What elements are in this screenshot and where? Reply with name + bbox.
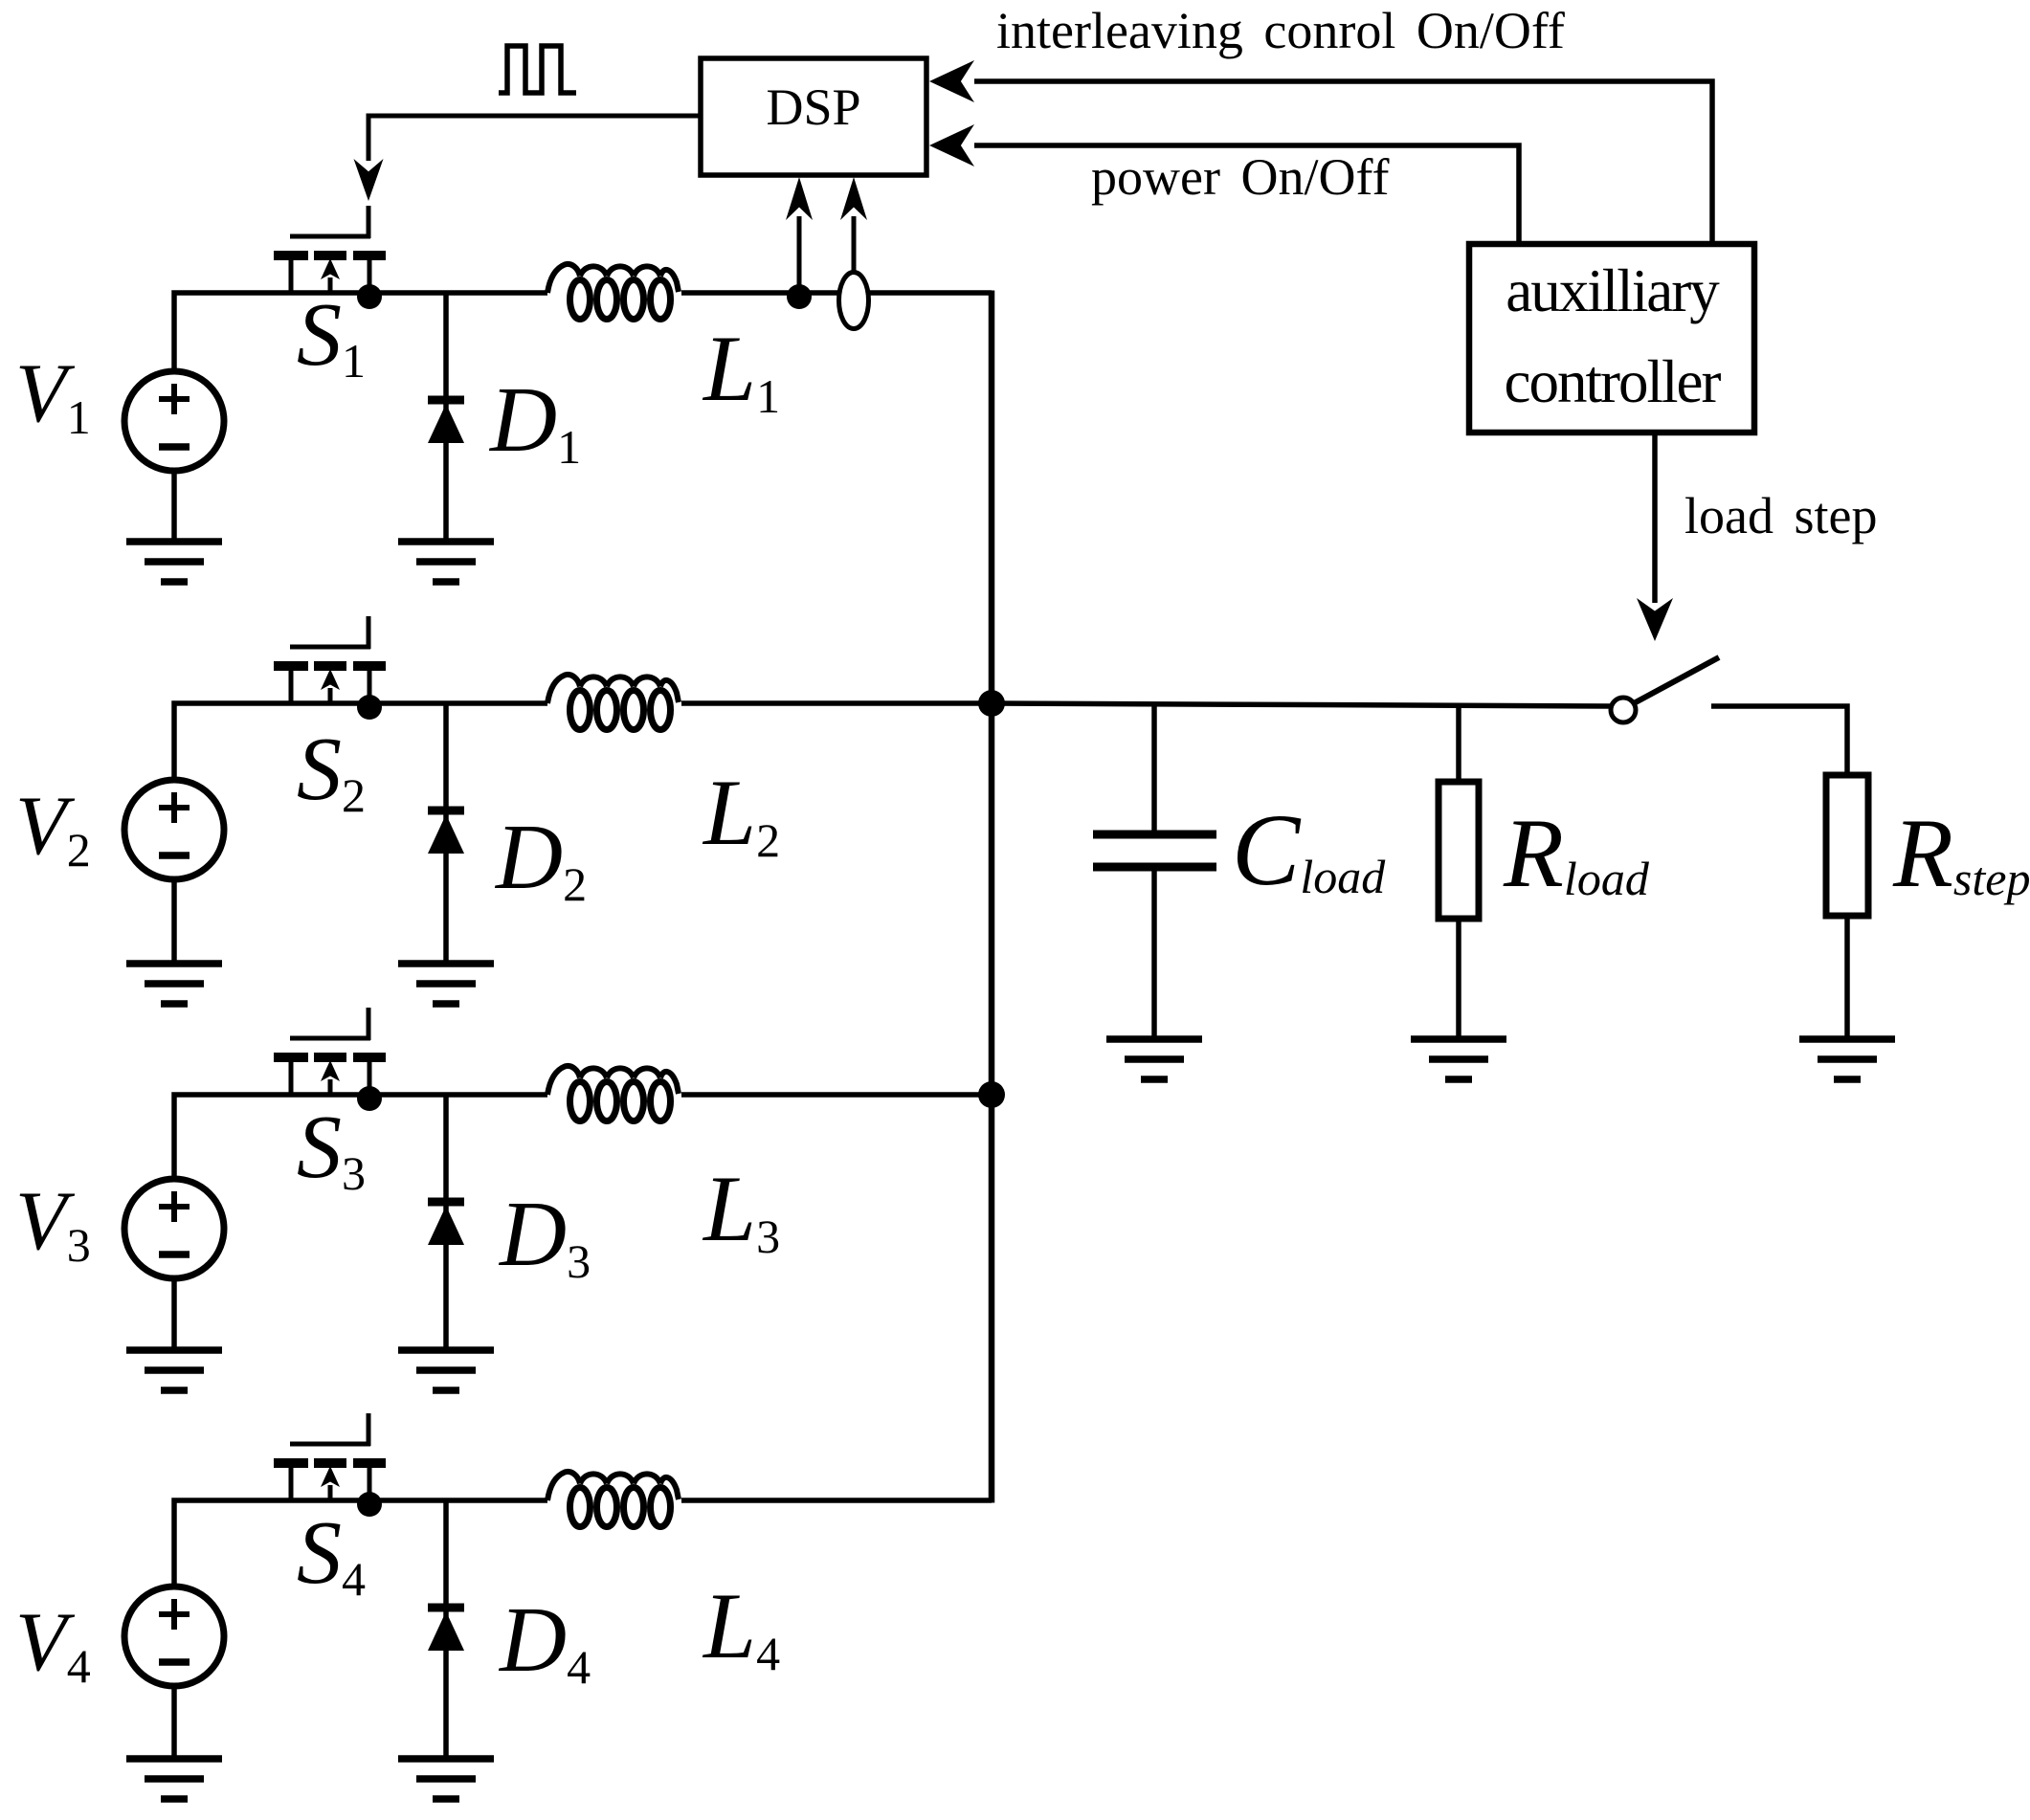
ground under V1 — [126, 542, 222, 582]
wire D4 anode to ground — [443, 1500, 449, 1759]
node DSP voltage tap — [787, 284, 812, 309]
ground under C_load — [1106, 1039, 1202, 1079]
inductor L4 — [547, 1472, 679, 1527]
wire bus to C_load — [1151, 703, 1157, 832]
wire S4 drain to L4 — [291, 1498, 547, 1503]
label auxilliary — [1506, 257, 1720, 324]
voltage source V4 — [124, 1587, 224, 1686]
wire R_step to ground — [1844, 916, 1850, 1039]
label L4 — [702, 1574, 780, 1680]
wire power On/Off — [929, 124, 1519, 244]
wire L2 to output bus — [681, 700, 992, 706]
label controller — [1505, 348, 1722, 415]
transistor S2 (MOSFET) — [274, 616, 386, 703]
arrow voltage feedback to DSP — [786, 177, 813, 288]
transistor S4 (MOSFET) — [274, 1413, 386, 1500]
label D3 — [498, 1183, 591, 1288]
label V1 — [15, 347, 91, 444]
wire S3 drain to L3 — [291, 1092, 547, 1098]
node S3/D3 junction — [357, 1086, 382, 1111]
label power On/Off — [1091, 148, 1389, 206]
wire D2 anode to ground — [443, 703, 449, 964]
wire interleaving control On/Off — [929, 60, 1712, 244]
node S2/D2 junction — [357, 695, 382, 720]
ground under D4 — [398, 1759, 494, 1799]
label V2 — [15, 780, 91, 877]
label DSP — [766, 78, 860, 136]
label S2 — [297, 720, 366, 822]
svg-text:DSP: DSP — [766, 78, 860, 136]
vertical output bus — [989, 291, 995, 1503]
wire phase 2 input (V2 top to S2 source) — [174, 703, 291, 780]
wire S2 drain to L2 — [291, 700, 547, 706]
svg-text:power On/Off: power On/Off — [1091, 148, 1389, 206]
wire phase 1 input (V1 top to S1 source) — [174, 293, 291, 371]
node S1/D1 junction — [357, 284, 382, 309]
label V3 — [15, 1175, 91, 1272]
wire C_load to ground — [1151, 871, 1157, 1039]
inductor L3 — [547, 1066, 679, 1121]
wire L1 to output bus — [681, 290, 992, 296]
voltage source V3 — [124, 1179, 224, 1278]
transistor S1 (MOSFET) — [274, 206, 386, 293]
wire V2 bottom to ground — [171, 879, 177, 964]
node bus/phase-3 junction — [978, 1081, 1005, 1108]
ground under D1 — [398, 542, 494, 582]
label L3 — [702, 1157, 780, 1263]
svg-text:load step: load step — [1684, 487, 1877, 544]
node S4/D4 junction — [357, 1492, 382, 1517]
wire V1 bottom to ground — [171, 471, 177, 542]
wire bus to R_load — [1456, 703, 1461, 782]
label S1 — [297, 285, 366, 388]
pulse waveform symbol — [499, 46, 576, 93]
label V4 — [15, 1596, 91, 1693]
wire L4 to output bus — [681, 1498, 992, 1503]
switch contact circle — [1611, 698, 1636, 722]
wire R_load to ground — [1456, 919, 1461, 1039]
resistor R_load — [1439, 782, 1479, 919]
label D2 — [494, 806, 587, 911]
svg-text:auxilliary: auxilliary — [1506, 257, 1720, 324]
ground under R_load — [1411, 1039, 1506, 1079]
label S4 — [297, 1503, 366, 1606]
wire L3 to output bus — [681, 1092, 992, 1098]
current probe ellipse — [839, 273, 869, 329]
voltage source V2 — [124, 780, 224, 879]
node bus/phase-2 junction — [978, 690, 1005, 717]
label load step — [1684, 487, 1877, 544]
label S3 — [297, 1098, 366, 1200]
arrow current feedback to DSP — [840, 177, 867, 274]
wire phase 3 input (V3 top to S3 source) — [174, 1095, 291, 1179]
diode D2 — [428, 810, 464, 854]
DSP box — [701, 58, 926, 175]
label L2 — [702, 761, 780, 867]
label D1 — [488, 368, 581, 474]
diode D4 — [428, 1608, 464, 1651]
label R_step — [1892, 799, 2030, 908]
ground under D2 — [398, 964, 494, 1004]
voltage source V1 — [124, 371, 224, 471]
wire phase 4 input (V4 top to S4 source) — [174, 1500, 291, 1587]
inductor L1 — [547, 264, 679, 320]
svg-text:interleaving conrol On/Off: interleaving conrol On/Off — [996, 2, 1565, 59]
auxiliary controller box — [1469, 244, 1754, 433]
wire output bus to switch — [992, 703, 1611, 706]
switch blade — [1634, 657, 1719, 703]
ground under V2 — [126, 964, 222, 1004]
svg-text:controller: controller — [1505, 348, 1722, 415]
wire DSP to S1 gate — [354, 116, 702, 201]
label C_load — [1232, 794, 1386, 907]
diode D3 — [428, 1202, 464, 1245]
arrow load step — [1637, 433, 1673, 641]
wire V3 bottom to ground — [171, 1278, 177, 1350]
label interleaving conrol On/Off — [996, 2, 1565, 59]
wire switch to Rstep — [1711, 706, 1847, 775]
wire V4 bottom to ground — [171, 1686, 177, 1759]
transistor S3 (MOSFET) — [274, 1008, 386, 1095]
label R_load — [1503, 799, 1650, 908]
ground under D3 — [398, 1350, 494, 1390]
capacitor C_load — [1093, 834, 1216, 867]
resistor R_step — [1826, 775, 1868, 916]
diode D1 — [428, 400, 464, 443]
label L1 — [702, 317, 780, 423]
ground under V3 — [126, 1350, 222, 1390]
wire S1 drain to L1 — [291, 290, 547, 296]
wire D1 anode to ground — [443, 293, 449, 542]
ground under V4 — [126, 1759, 222, 1799]
wire D3 anode to ground — [443, 1095, 449, 1350]
label D4 — [498, 1588, 591, 1694]
ground under R_step — [1799, 1039, 1895, 1079]
inductor L2 — [547, 675, 679, 730]
